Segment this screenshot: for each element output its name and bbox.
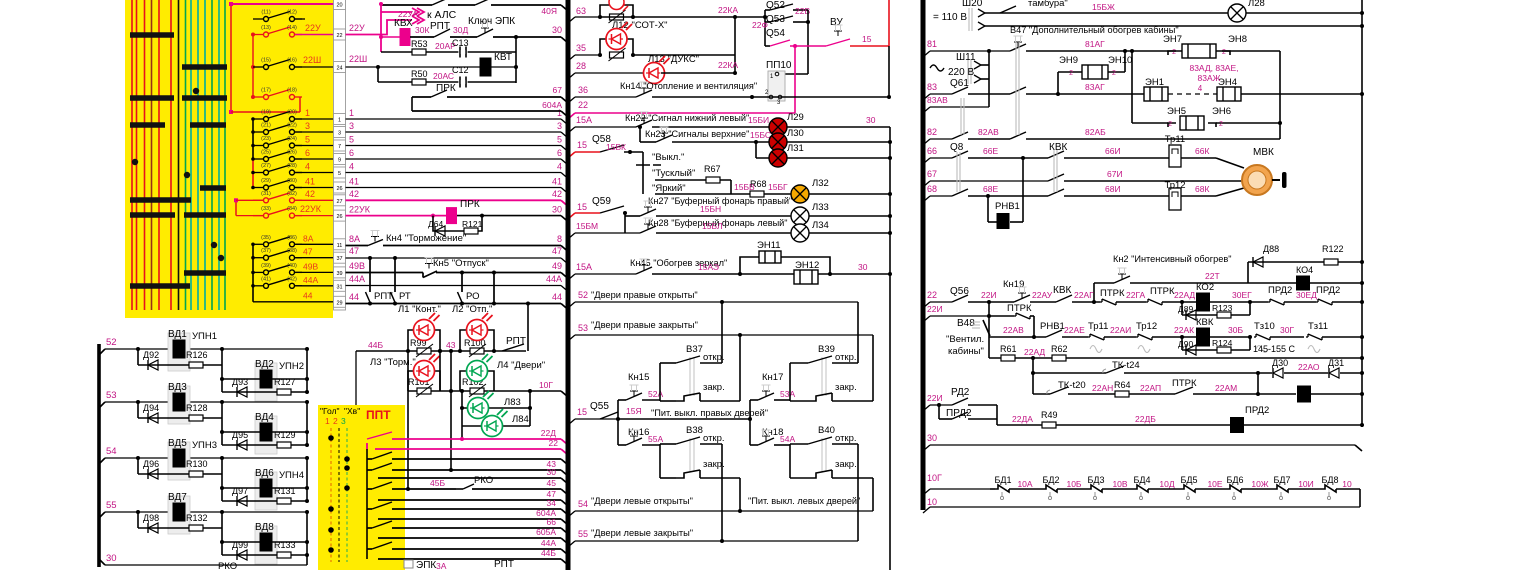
svg-text:БД1: БД1: [994, 475, 1011, 485]
svg-text:(25): (25): [261, 150, 271, 156]
svg-text:53: 53: [578, 323, 588, 333]
svg-text:53А: 53А: [780, 389, 795, 399]
svg-text:КВК: КВК: [1196, 317, 1214, 328]
svg-text:67И: 67И: [1107, 169, 1123, 179]
svg-text:22АК: 22АК: [1174, 325, 1194, 335]
svg-text:R67: R67: [704, 164, 721, 174]
svg-text:R50: R50: [411, 69, 428, 79]
svg-text:3: 3: [305, 121, 310, 131]
svg-text:22Т: 22Т: [1205, 271, 1220, 281]
svg-text:55: 55: [578, 529, 588, 539]
svg-text:Л30: Л30: [787, 128, 804, 139]
svg-text:5: 5: [305, 135, 310, 145]
svg-text:10В: 10В: [1112, 479, 1127, 489]
svg-text:10А: 10А: [1017, 479, 1032, 489]
svg-text:Кн23 "Сигналы верхние": Кн23 "Сигналы верхние": [645, 129, 749, 139]
svg-text:ВД2: ВД2: [255, 359, 274, 370]
svg-text:ПТРК: ПТРК: [1007, 303, 1032, 314]
svg-text:37: 37: [336, 256, 342, 262]
svg-text:УПН4: УПН4: [279, 470, 304, 481]
svg-text:"Двери левые открыты": "Двери левые открыты": [591, 496, 693, 506]
svg-text:1: 1: [338, 118, 341, 124]
svg-text:36: 36: [578, 85, 588, 95]
svg-text:(33): (33): [261, 206, 271, 212]
svg-text:44А: 44А: [546, 274, 562, 284]
svg-text:Кн17: Кн17: [762, 372, 783, 383]
svg-text:R129: R129: [274, 430, 296, 440]
svg-text:(32): (32): [287, 191, 297, 197]
svg-text:67: 67: [553, 85, 563, 95]
svg-text:22АУ: 22АУ: [1032, 290, 1053, 300]
svg-text:С13: С13: [452, 38, 469, 48]
svg-text:22ДА: 22ДА: [1012, 414, 1033, 424]
svg-text:83АВ: 83АВ: [927, 95, 948, 105]
svg-text:3: 3: [338, 131, 341, 137]
svg-text:"Пит. выкл. правых дверей": "Пит. выкл. правых дверей": [651, 408, 768, 418]
svg-text:145-155 С: 145-155 С: [1253, 344, 1296, 354]
svg-text:42: 42: [552, 189, 562, 199]
svg-text:ЭН7: ЭН7: [1163, 34, 1182, 45]
svg-text:(42): (42): [287, 276, 297, 282]
svg-text:Q54: Q54: [766, 28, 785, 39]
svg-text:закр.: закр.: [835, 382, 857, 393]
svg-text:(24): (24): [287, 136, 297, 142]
svg-text:ЭН9: ЭН9: [1059, 55, 1078, 66]
svg-text:"Пит. выкл. левых дверей": "Пит. выкл. левых дверей": [748, 496, 860, 506]
svg-text:Л29: Л29: [787, 112, 804, 123]
svg-text:22АГ: 22АГ: [1074, 290, 1094, 300]
svg-text:68И: 68И: [1105, 184, 1121, 194]
svg-text:Д93: Д93: [232, 377, 248, 387]
svg-text:66Е: 66Е: [983, 146, 998, 156]
svg-text:"Двери левые закрыты": "Двери левые закрыты": [591, 528, 693, 538]
svg-text:В37: В37: [686, 344, 703, 355]
svg-text:(38): (38): [287, 248, 297, 254]
svg-text:8: 8: [557, 234, 562, 244]
svg-text:22Ш: 22Ш: [349, 54, 367, 64]
svg-text:44: 44: [303, 291, 313, 301]
svg-text:ЭН4: ЭН4: [1218, 77, 1237, 88]
svg-text:47: 47: [303, 247, 313, 257]
svg-text:РД2: РД2: [951, 387, 970, 398]
svg-text:15: 15: [577, 202, 587, 212]
svg-text:47: 47: [349, 246, 359, 256]
svg-text:3: 3: [349, 121, 354, 131]
svg-text:R121: R121: [462, 219, 483, 229]
svg-text:R127: R127: [274, 377, 296, 387]
svg-text:Тр12: Тр12: [1164, 180, 1185, 191]
svg-text:3: 3: [557, 121, 562, 131]
svg-text:68К: 68К: [1195, 184, 1209, 194]
svg-text:(31): (31): [261, 191, 271, 197]
svg-text:ЭН10: ЭН10: [1108, 55, 1132, 66]
svg-text:22У: 22У: [349, 23, 365, 33]
svg-text:22АИ: 22АИ: [1110, 325, 1131, 335]
svg-text:81: 81: [927, 39, 937, 49]
svg-text:22АО: 22АО: [1298, 362, 1320, 372]
svg-text:41: 41: [552, 177, 562, 187]
svg-text:(34): (34): [287, 206, 297, 212]
svg-text:67: 67: [927, 169, 937, 179]
svg-text:R130: R130: [186, 459, 208, 469]
svg-text:53: 53: [106, 390, 117, 401]
svg-text:Д98: Д98: [143, 513, 159, 523]
svg-text:ВД6: ВД6: [255, 468, 274, 479]
svg-text:"Двери правые закрыты": "Двери правые закрыты": [591, 320, 698, 330]
svg-text:22КА: 22КА: [718, 60, 738, 70]
svg-text:закр.: закр.: [703, 459, 725, 470]
svg-text:РПТ: РПТ: [494, 559, 514, 570]
svg-text:ВД4: ВД4: [255, 412, 274, 423]
svg-text:Q8: Q8: [950, 142, 964, 153]
svg-text:82: 82: [927, 127, 937, 137]
svg-text:(27): (27): [261, 163, 271, 169]
svg-text:ПРК: ПРК: [460, 199, 480, 210]
svg-text:КВХ: КВХ: [394, 18, 413, 29]
svg-text:В39: В39: [818, 344, 835, 355]
svg-text:В38: В38: [686, 425, 703, 436]
svg-text:55: 55: [106, 500, 117, 511]
svg-text:49В: 49В: [303, 261, 318, 271]
svg-text:10И: 10И: [1298, 479, 1314, 489]
svg-text:(30): (30): [287, 178, 297, 184]
svg-text:тамбура": тамбура": [1028, 0, 1068, 9]
svg-text:(13): (13): [261, 25, 271, 31]
svg-text:10Д: 10Д: [1159, 479, 1174, 489]
svg-text:15БЖ: 15БЖ: [1092, 2, 1115, 12]
svg-text:15БГ: 15БГ: [768, 182, 788, 192]
svg-text:22Д: 22Д: [541, 428, 556, 438]
svg-text:10Г: 10Г: [539, 380, 553, 390]
svg-text:2: 2: [1222, 49, 1226, 56]
svg-text:3А: 3А: [436, 561, 447, 570]
svg-text:ЭН6: ЭН6: [1212, 106, 1231, 117]
svg-text:15: 15: [862, 34, 872, 44]
svg-text:30Б: 30Б: [1228, 325, 1243, 335]
svg-text:БД6: БД6: [1226, 475, 1243, 485]
svg-text:39: 39: [336, 271, 342, 277]
svg-text:52: 52: [578, 290, 588, 300]
svg-text:БД3: БД3: [1087, 475, 1104, 485]
svg-text:3: 3: [341, 416, 346, 426]
svg-text:(28): (28): [287, 163, 297, 169]
svg-text:КВТ: КВТ: [494, 52, 512, 63]
svg-text:604А: 604А: [542, 100, 562, 110]
svg-text:КВК: КВК: [1053, 285, 1071, 296]
svg-text:закр.: закр.: [703, 382, 725, 393]
svg-text:(16): (16): [287, 58, 297, 64]
svg-text:ПРД2: ПРД2: [1268, 285, 1292, 296]
svg-text:20АС: 20АС: [433, 71, 454, 81]
svg-text:22АП: 22АП: [1140, 383, 1161, 393]
svg-text:КВК: КВК: [1049, 142, 1067, 153]
svg-text:откр.: откр.: [835, 433, 857, 444]
svg-text:(18): (18): [287, 88, 297, 94]
svg-text:Д99: Д99: [232, 540, 248, 550]
svg-text:ЭН5: ЭН5: [1167, 106, 1186, 117]
svg-text:15БН: 15БН: [700, 204, 721, 214]
svg-text:4: 4: [557, 162, 562, 172]
svg-text:22УК: 22УК: [349, 205, 371, 215]
svg-text:Д96: Д96: [143, 459, 159, 469]
svg-text:10: 10: [1342, 479, 1352, 489]
svg-text:10Е: 10Е: [1207, 479, 1222, 489]
svg-text:83АЖ: 83АЖ: [1198, 73, 1221, 83]
svg-text:ПРД2: ПРД2: [1316, 285, 1340, 296]
svg-text:УПН3: УПН3: [192, 440, 217, 451]
svg-text:26: 26: [336, 186, 342, 192]
svg-text:4: 4: [305, 162, 310, 172]
svg-text:R122: R122: [1322, 244, 1344, 254]
svg-text:22Ш: 22Ш: [303, 55, 321, 65]
svg-text:УПН1: УПН1: [192, 331, 217, 342]
svg-text:ВД3: ВД3: [168, 382, 187, 393]
svg-text:(19): (19): [261, 110, 271, 116]
svg-text:ЭН12: ЭН12: [795, 260, 819, 271]
svg-text:R131: R131: [274, 486, 296, 496]
svg-text:1: 1: [325, 416, 330, 426]
svg-text:РПТ: РПТ: [430, 21, 450, 32]
svg-text:Л2 "Отп.": Л2 "Отп.": [452, 304, 492, 315]
svg-text:Д90: Д90: [1178, 339, 1193, 349]
svg-text:(36): (36): [287, 235, 297, 241]
svg-text:11: 11: [337, 243, 343, 249]
svg-text:15БЛ: 15БЛ: [702, 221, 723, 231]
svg-text:30Д: 30Д: [453, 25, 468, 35]
svg-text:30: 30: [106, 553, 117, 564]
svg-text:кабины": кабины": [948, 346, 984, 357]
svg-text:83АД, 83АЕ,: 83АД, 83АЕ,: [1189, 63, 1238, 73]
svg-text:15А: 15А: [576, 115, 592, 125]
svg-text:закр.: закр.: [835, 459, 857, 470]
svg-text:(41): (41): [261, 276, 271, 282]
svg-text:15БМ: 15БМ: [576, 221, 598, 231]
svg-text:30: 30: [552, 25, 562, 35]
svg-text:ПТРК: ПТРК: [1100, 288, 1125, 299]
svg-text:5: 5: [338, 171, 341, 177]
svg-text:44А: 44А: [303, 275, 318, 285]
svg-text:Кн5 "Отпуск": Кн5 "Отпуск": [433, 258, 489, 269]
svg-text:Л33: Л33: [812, 202, 829, 213]
svg-text:22ГА: 22ГА: [1126, 290, 1145, 300]
svg-text:22И: 22И: [927, 393, 943, 403]
svg-text:5: 5: [349, 135, 354, 145]
svg-text:"Гол": "Гол": [320, 406, 340, 416]
svg-text:"Хв": "Хв": [344, 406, 360, 416]
svg-text:8А: 8А: [303, 233, 314, 243]
svg-text:15БК: 15БК: [606, 142, 626, 152]
svg-text:Д97: Д97: [232, 486, 248, 496]
svg-text:Q55: Q55: [590, 401, 609, 412]
svg-text:44А: 44А: [349, 274, 365, 284]
svg-text:R49: R49: [1041, 410, 1058, 420]
svg-text:ПРД2: ПРД2: [946, 408, 972, 419]
svg-text:605А: 605А: [536, 527, 556, 537]
svg-text:(39): (39): [261, 263, 271, 269]
svg-text:Кн4 "Торможение": Кн4 "Торможение": [386, 233, 466, 244]
svg-text:(15): (15): [261, 58, 271, 64]
svg-text:Л28: Л28: [1248, 0, 1265, 9]
svg-text:РКО: РКО: [474, 475, 493, 486]
svg-text:6: 6: [305, 148, 310, 158]
svg-text:(37): (37): [261, 248, 271, 254]
svg-text:22У: 22У: [305, 23, 321, 33]
svg-text:45: 45: [547, 478, 557, 488]
svg-text:R133: R133: [274, 540, 296, 550]
svg-text:Д94: Д94: [143, 403, 159, 413]
svg-text:22УК: 22УК: [300, 204, 322, 214]
svg-text:В40: В40: [818, 425, 835, 436]
svg-text:Д88: Д88: [1263, 244, 1279, 254]
svg-text:РКО: РКО: [218, 561, 237, 570]
svg-text:82АБ: 82АБ: [1085, 127, 1106, 137]
svg-text:49: 49: [552, 261, 562, 271]
svg-text:Д89: Д89: [1178, 304, 1193, 314]
svg-text:41: 41: [305, 177, 315, 187]
svg-text:РО: РО: [466, 291, 480, 302]
svg-text:28: 28: [576, 61, 586, 71]
svg-text:Тр12: Тр12: [1136, 321, 1157, 332]
svg-text:КО2: КО2: [1196, 282, 1214, 293]
svg-text:R62: R62: [1051, 344, 1068, 354]
svg-text:15БС: 15БС: [750, 130, 771, 140]
svg-text:54: 54: [106, 446, 117, 457]
svg-text:Тр11: Тр11: [1165, 134, 1185, 145]
svg-text:Тз10: Тз10: [1254, 321, 1275, 332]
svg-text:22: 22: [336, 33, 342, 39]
svg-text:22: 22: [549, 438, 559, 448]
svg-text:4: 4: [1198, 84, 1203, 93]
svg-text:R68: R68: [750, 179, 767, 189]
svg-text:30: 30: [552, 205, 562, 215]
svg-text:R126: R126: [186, 350, 208, 360]
svg-text:В47 "Дополнительный обогрев ка: В47 "Дополнительный обогрев кабины": [1010, 25, 1179, 35]
svg-text:2: 2: [1112, 70, 1116, 77]
svg-text:(17): (17): [261, 88, 271, 94]
svg-text:22КА: 22КА: [718, 5, 738, 15]
svg-text:Q53: Q53: [766, 14, 785, 25]
svg-text:35: 35: [576, 43, 586, 53]
svg-text:(40): (40): [287, 263, 297, 269]
svg-text:(23): (23): [261, 136, 271, 142]
svg-text:ЭН1: ЭН1: [1145, 77, 1164, 88]
svg-text:81АГ: 81АГ: [1085, 39, 1105, 49]
svg-text:ЭН8: ЭН8: [1228, 34, 1247, 45]
svg-text:Ш11: Ш11: [956, 52, 976, 63]
svg-text:к АЛС: к АЛС: [427, 9, 457, 21]
svg-text:22И: 22И: [981, 290, 997, 300]
svg-text:22АД: 22АД: [1174, 290, 1195, 300]
svg-text:47: 47: [552, 246, 562, 256]
svg-text:22АД: 22АД: [1024, 347, 1045, 357]
svg-text:82АВ: 82АВ: [978, 127, 999, 137]
svg-text:Л1 "Конт.": Л1 "Конт.": [398, 304, 441, 315]
svg-text:66: 66: [927, 146, 937, 156]
svg-text:42: 42: [305, 189, 315, 199]
svg-text:30: 30: [547, 467, 557, 477]
svg-text:Д92: Д92: [143, 350, 159, 360]
svg-text:52: 52: [106, 337, 117, 348]
svg-text:Д64: Д64: [428, 219, 443, 229]
svg-text:6: 6: [349, 148, 354, 158]
svg-text:Тр11: Тр11: [1088, 321, 1108, 332]
svg-text:10: 10: [927, 497, 937, 507]
svg-text:22: 22: [927, 290, 937, 300]
svg-text:Л3 "Торм.": Л3 "Торм.": [370, 357, 416, 368]
svg-text:22: 22: [578, 100, 588, 110]
svg-text:6: 6: [557, 148, 562, 158]
svg-text:30: 30: [866, 115, 876, 125]
svg-text:2: 2: [1168, 121, 1172, 128]
svg-text:68: 68: [927, 184, 937, 194]
svg-text:30: 30: [858, 262, 868, 272]
svg-text:БД5: БД5: [1180, 475, 1197, 485]
svg-text:"Тусклый": "Тусклый": [652, 168, 695, 179]
svg-text:Д30: Д30: [1272, 358, 1288, 368]
svg-text:41: 41: [349, 177, 359, 187]
svg-text:66: 66: [547, 517, 557, 527]
svg-text:31: 31: [336, 284, 342, 290]
svg-text:54: 54: [578, 499, 588, 509]
svg-text:45Б: 45Б: [430, 478, 445, 488]
svg-text:С12: С12: [452, 65, 469, 75]
svg-text:"Вентил.: "Вентил.: [946, 334, 984, 345]
svg-text:83АГ: 83АГ: [1085, 82, 1105, 92]
svg-text:R53: R53: [411, 39, 428, 49]
svg-text:29: 29: [336, 300, 342, 306]
svg-text:15Я: 15Я: [626, 406, 642, 416]
svg-text:7: 7: [338, 144, 341, 150]
svg-text:54А: 54А: [780, 434, 795, 444]
svg-text:10Б: 10Б: [1066, 479, 1081, 489]
svg-text:44Б: 44Б: [541, 548, 556, 558]
svg-text:2: 2: [1172, 49, 1176, 56]
svg-text:БД4: БД4: [1133, 475, 1150, 485]
svg-text:24: 24: [336, 66, 342, 72]
svg-text:ВД7: ВД7: [168, 492, 187, 503]
svg-text:40Я: 40Я: [541, 6, 557, 16]
svg-text:(11): (11): [261, 10, 271, 16]
svg-text:15БИ: 15БИ: [748, 115, 769, 125]
svg-text:49В: 49В: [349, 261, 365, 271]
svg-text:(29): (29): [261, 178, 271, 184]
svg-text:30К: 30К: [415, 25, 429, 35]
svg-text:2: 2: [333, 416, 338, 426]
svg-text:"Выкл.": "Выкл.": [652, 152, 684, 163]
svg-text:22АМ: 22АМ: [1215, 383, 1237, 393]
svg-text:откр.: откр.: [835, 352, 857, 363]
svg-text:30: 30: [927, 433, 937, 443]
svg-text:9: 9: [338, 158, 341, 164]
svg-text:34: 34: [547, 498, 557, 508]
svg-text:ППТ: ППТ: [366, 408, 391, 422]
svg-text:30ЕГ: 30ЕГ: [1232, 290, 1252, 300]
svg-text:42: 42: [349, 189, 359, 199]
svg-text:КО4: КО4: [1296, 265, 1313, 275]
svg-text:Д31: Д31: [1328, 358, 1344, 368]
svg-text:Ш20: Ш20: [962, 0, 983, 9]
svg-text:(35): (35): [261, 235, 271, 241]
svg-text:(21): (21): [261, 123, 271, 129]
svg-text:(26): (26): [287, 150, 297, 156]
svg-text:22АН: 22АН: [1092, 383, 1113, 393]
svg-text:РПТ: РПТ: [506, 336, 526, 347]
svg-text:63: 63: [576, 6, 586, 16]
svg-text:20: 20: [336, 3, 342, 9]
svg-text:ПРД2: ПРД2: [1245, 405, 1269, 416]
svg-text:43: 43: [446, 340, 456, 350]
svg-text:22ДБ: 22ДБ: [1135, 414, 1156, 424]
